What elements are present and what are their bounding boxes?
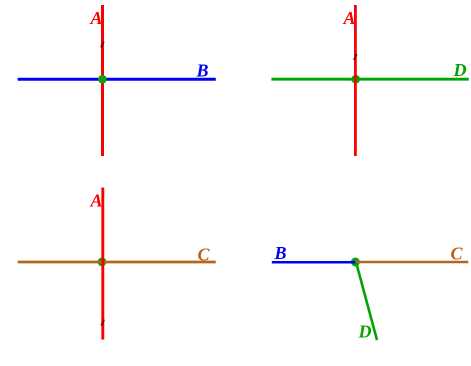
- wire: blue horizontal line B (fig 1): [18, 78, 216, 81]
- svg-text:C: C: [451, 244, 464, 264]
- node: green intersection dot (fig 3): [98, 258, 107, 267]
- svg-text:A: A: [343, 8, 356, 28]
- node: green intersection dot (fig 4): [351, 258, 360, 267]
- svg-text:A: A: [90, 8, 103, 28]
- svg-text:D: D: [358, 322, 372, 342]
- svg-text:A: A: [90, 191, 103, 211]
- tick mark on line A (fig 2): [354, 54, 356, 60]
- node: green intersection dot (fig 1): [98, 75, 107, 84]
- wire: red vertical line A (fig 2): [354, 5, 357, 156]
- svg-text:B: B: [274, 243, 287, 263]
- tick mark on line A (fig 3): [102, 320, 104, 326]
- wire: blue horizontal segment B (fig 4): [272, 261, 356, 264]
- wire: red vertical line A (fig 1): [101, 5, 104, 156]
- svg-text:C: C: [198, 245, 211, 265]
- svg-text:D: D: [453, 60, 467, 80]
- wire: green slanted line D (fig 4): [356, 262, 377, 340]
- node: green intersection dot (fig 2): [351, 75, 360, 84]
- svg-text:B: B: [196, 61, 209, 81]
- wire: green horizontal line D (fig 2): [271, 78, 468, 81]
- wire: red vertical line A (fig 3): [101, 188, 104, 340]
- tick mark on line A (fig 1): [101, 42, 103, 48]
- wire: orange horizontal line C (fig 3): [18, 261, 216, 264]
- wire: orange horizontal segment C (fig 4): [356, 261, 468, 264]
